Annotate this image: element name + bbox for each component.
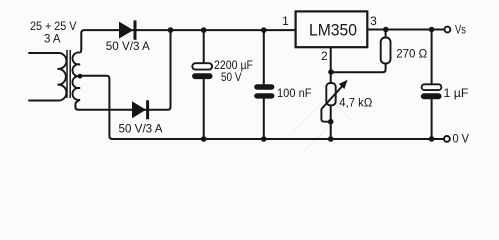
svg-text:1: 1	[282, 14, 289, 28]
wire pin 2 down to bottom rail	[330, 47, 332, 139]
diode D2 bottom	[132, 101, 146, 118]
svg-text:270 Ω: 270 Ω	[396, 47, 427, 61]
wire R1 bottom to pin2 node	[331, 64, 386, 73]
capacitor C2 100nF wire top	[263, 30, 265, 84]
svg-text:50 V/3 A: 50 V/3 A	[106, 39, 150, 53]
node pot bottom rail	[328, 136, 334, 142]
capacitor C1 wire bottom	[203, 79, 205, 139]
svg-text:3: 3	[370, 14, 377, 28]
node pot wiper junction	[328, 119, 334, 125]
capacitor C2 wire bottom	[263, 99, 265, 140]
node C2 top	[261, 27, 267, 33]
transformer T1 secondary coil	[73, 52, 80, 100]
wire pin 3 output rail	[367, 29, 444, 31]
svg-text:100 nF: 100 nF	[277, 86, 312, 100]
capacitor C1 2200uF plates	[192, 63, 212, 69]
svg-text:0 V: 0 V	[453, 132, 470, 146]
capacitor C3 1uF plates	[422, 84, 442, 90]
capacitor C1 2200uF wire top	[203, 30, 205, 63]
svg-text:50 V/3 A: 50 V/3 A	[119, 122, 163, 136]
node center tap	[78, 74, 83, 79]
transformer T1 primary coil	[29, 53, 66, 101]
node C3 bottom	[429, 136, 435, 142]
potentiometer P1 body	[326, 83, 335, 105]
svg-text:1 µF: 1 µF	[444, 86, 469, 100]
terminal 0 V	[444, 136, 450, 142]
wire center tap to 0V rail (bottom rail)	[80, 76, 444, 139]
svg-text:2: 2	[321, 49, 328, 63]
svg-text:3 A: 3 A	[44, 32, 61, 46]
svg-text:Vs: Vs	[455, 23, 466, 37]
node input rail / D2 junction	[168, 27, 174, 33]
svg-text:4,7 kΩ: 4,7 kΩ	[339, 96, 372, 110]
node R1/pot junction	[328, 69, 334, 75]
node C1 bottom	[201, 136, 207, 142]
resistor R1 270 ohm wire top	[385, 30, 387, 39]
node R1 top	[383, 27, 389, 33]
node C2 bottom	[261, 136, 267, 142]
terminal Vs	[445, 27, 451, 33]
diode D1 top	[119, 22, 133, 39]
op-amp U1 LM350 regulator box	[296, 11, 368, 47]
node C1 top	[201, 27, 207, 33]
potentiometer P1 wiper arrow	[321, 85, 343, 109]
capacitor C3 1uF wire top	[431, 30, 433, 85]
transformer T1 core	[66, 50, 68, 98]
wire secondary bottom to D2 and up to rail	[75, 30, 170, 110]
capacitor C2 100nF plates	[254, 84, 274, 89]
capacitor C3 wire bottom	[431, 99, 433, 139]
watermark faint lines	[292, 97, 352, 152]
resistor R1 270 ohm body	[381, 38, 391, 64]
svg-text:LM350: LM350	[309, 21, 357, 40]
wire secondary top to input rail	[80, 30, 296, 52]
potentiometer P1 wiper loop	[321, 109, 330, 122]
svg-text:50 V: 50 V	[221, 70, 242, 84]
node C3 top	[429, 27, 435, 33]
